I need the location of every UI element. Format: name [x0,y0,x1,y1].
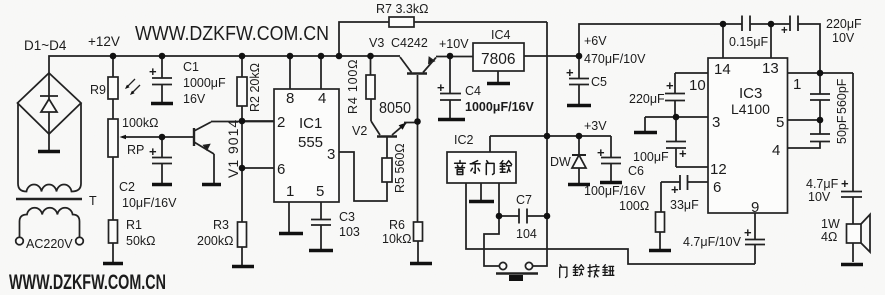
svg-text:100μF: 100μF [633,150,669,164]
svg-text:DW: DW [550,155,571,169]
svg-text:C5: C5 [591,75,607,89]
svg-text:1000μF: 1000μF [183,76,226,90]
svg-text:5: 5 [776,114,784,131]
svg-text:4.7μF/10V: 4.7μF/10V [683,235,742,249]
svg-text:WWW.DZKFW.COM.CN: WWW.DZKFW.COM.CN [9,271,166,294]
svg-text:IC3: IC3 [739,85,762,102]
svg-text:+: + [597,145,605,160]
svg-text:R5 560Ω: R5 560Ω [393,143,407,193]
svg-text:+: + [671,182,679,197]
svg-text:R4 100Ω: R4 100Ω [346,59,360,114]
svg-text:50pF: 50pF [835,115,849,144]
svg-text:C1: C1 [183,60,199,74]
svg-text:4: 4 [772,142,780,159]
svg-text:100kΩ: 100kΩ [122,116,158,130]
svg-text:4: 4 [318,90,326,107]
svg-text:V2: V2 [352,124,367,138]
svg-text:8050: 8050 [379,100,411,117]
svg-text:R9: R9 [90,83,106,97]
svg-text:10V: 10V [832,31,855,45]
svg-text:R2 20kΩ: R2 20kΩ [248,63,262,112]
svg-text:+12V: +12V [88,34,120,49]
svg-text:WWW.DZKFW.COM.CN: WWW.DZKFW.COM.CN [135,23,329,45]
svg-text:1000μF/16V: 1000μF/16V [465,100,534,114]
svg-text:+: + [666,78,674,93]
svg-text:V3: V3 [369,36,384,50]
svg-text:100μF/16V: 100μF/16V [584,184,646,198]
svg-text:16V: 16V [183,92,206,106]
svg-text:4.7μF: 4.7μF [806,177,839,191]
svg-text:10kΩ: 10kΩ [382,232,412,246]
svg-text:3: 3 [327,146,335,163]
svg-text:+: + [679,146,687,161]
svg-text:470μF/10V: 470μF/10V [584,52,646,66]
svg-text:4Ω: 4Ω [821,230,837,244]
svg-text:6: 6 [713,179,721,196]
svg-text:6: 6 [277,161,285,178]
svg-text:RP: RP [127,143,144,157]
svg-text:104: 104 [516,227,537,241]
svg-text:V1 9014: V1 9014 [225,119,241,178]
svg-text:7806: 7806 [481,51,515,68]
svg-text:103: 103 [339,225,360,239]
svg-text:+: + [781,25,788,37]
svg-text:9: 9 [751,199,759,216]
svg-text:1: 1 [793,76,801,93]
svg-text:13: 13 [762,60,779,77]
svg-text:555: 555 [298,134,323,151]
svg-text:IC4: IC4 [491,28,511,42]
svg-text:C6: C6 [628,164,644,178]
svg-text:C4: C4 [465,84,481,98]
svg-text:10μF/16V: 10μF/16V [122,196,177,210]
svg-text:12: 12 [710,161,727,178]
svg-text:2: 2 [277,114,285,131]
svg-text:1W: 1W [821,217,840,231]
svg-text:50kΩ: 50kΩ [126,234,156,248]
svg-text:IC2: IC2 [454,133,474,147]
svg-text:220μF: 220μF [826,17,862,31]
svg-text:R6: R6 [389,218,405,232]
svg-text:220μF: 220μF [629,92,665,106]
svg-text:10: 10 [689,77,706,94]
svg-text:R1: R1 [126,218,142,232]
svg-text:100Ω: 100Ω [619,199,649,213]
svg-text:+: + [149,64,157,79]
svg-text:+6V: +6V [584,34,607,48]
svg-text:+3V: +3V [584,119,607,133]
svg-text:0.15μF: 0.15μF [729,35,769,49]
svg-text:10V: 10V [808,190,831,204]
svg-text:IC1: IC1 [299,115,322,132]
svg-text:5: 5 [316,183,324,200]
svg-text:L4100: L4100 [731,101,770,117]
svg-text:+: + [149,144,157,159]
svg-text:+: + [437,80,445,95]
svg-text:D1~D4: D1~D4 [24,38,67,53]
svg-text:33μF: 33μF [670,198,699,212]
svg-text:200kΩ: 200kΩ [197,234,233,248]
svg-text:T: T [89,194,97,208]
svg-text:1: 1 [286,183,294,200]
svg-text:C3: C3 [339,210,355,224]
svg-text:3: 3 [712,114,720,131]
svg-text:14: 14 [714,61,731,78]
svg-text:C7: C7 [516,193,532,207]
svg-text:560pF: 560pF [835,78,849,114]
svg-text:8: 8 [286,90,294,107]
svg-text:R3: R3 [213,218,229,232]
svg-text:+: + [744,225,752,240]
svg-text:+: + [841,176,849,191]
svg-text:+10V: +10V [439,37,469,51]
svg-text:+: + [566,65,574,80]
svg-text:R7 3.3kΩ: R7 3.3kΩ [376,2,428,16]
svg-text:C2: C2 [119,180,135,194]
svg-text:AC220V: AC220V [26,237,73,251]
svg-text:C4242: C4242 [391,36,428,50]
